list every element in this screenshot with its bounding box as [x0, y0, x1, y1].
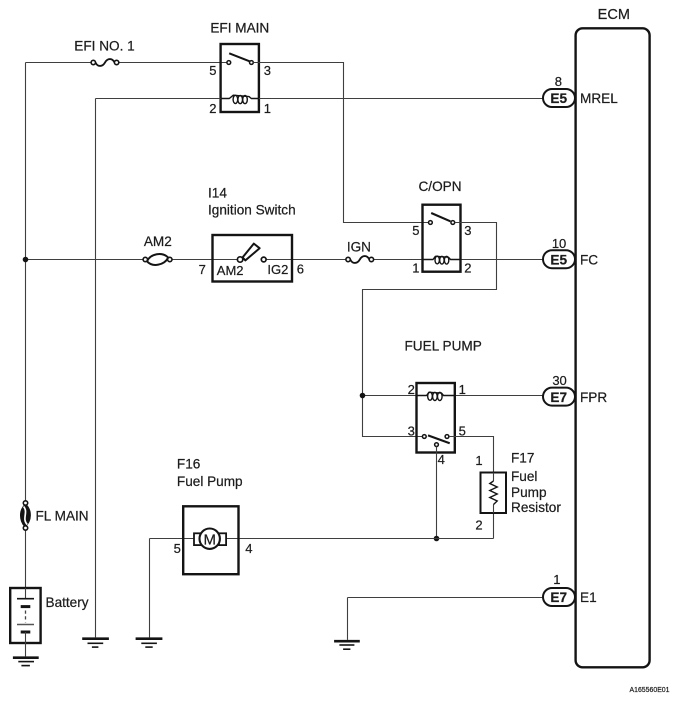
svg-text:IG2: IG2	[267, 262, 288, 277]
relay FUEL PUMP contact pin 4	[435, 443, 439, 447]
wire battery feed horizontal top (B+ to EFI NO.1 fuse to EFI MAIN pin 5)	[26, 62, 227, 64]
svg-text:5: 5	[412, 223, 419, 238]
wire E1 to ground	[348, 598, 544, 640]
svg-text:AM2: AM2	[217, 263, 244, 278]
svg-text:FC: FC	[580, 252, 598, 267]
svg-text:1: 1	[475, 453, 482, 468]
relay EFI MAIN contact pin 5	[227, 61, 231, 65]
svg-text:IGN: IGN	[347, 239, 371, 254]
svg-text:Resistor: Resistor	[511, 500, 561, 515]
connector E7 E1	[543, 572, 597, 606]
relay C/OPN coil	[423, 256, 461, 264]
svg-text:1: 1	[459, 382, 466, 397]
svg-text:E5: E5	[550, 91, 567, 106]
svg-text:ECM: ECM	[598, 7, 630, 23]
svg-text:E1: E1	[580, 590, 597, 605]
svg-text:2: 2	[408, 382, 415, 397]
svg-text:A165560E01: A165560E01	[630, 685, 670, 694]
wire left battery vertical	[25, 63, 27, 589]
relay FUEL PUMP contact pin 3	[422, 435, 426, 439]
relay EFI MAIN contact pin 3	[250, 61, 254, 65]
wire FUEL PUMP coil row to FPR	[363, 395, 544, 397]
svg-text:Battery: Battery	[46, 595, 89, 610]
svg-text:Fuel: Fuel	[511, 469, 537, 484]
connector E5 MREL	[543, 74, 618, 107]
wire FUEL PUMP pin5 to F17 resistor	[449, 437, 494, 539]
svg-text:F17: F17	[511, 451, 534, 466]
svg-text:EFI MAIN: EFI MAIN	[210, 21, 269, 36]
fusible link FL MAIN	[21, 501, 89, 530]
switch I14 contact IG2	[261, 257, 266, 262]
motor brush left	[194, 533, 203, 545]
wire AM2 row (battery to ignition switch to C/OPN coil to FC)	[26, 259, 544, 261]
wire fuel pump motor row	[150, 539, 494, 638]
svg-text:2: 2	[209, 101, 216, 116]
svg-text:1: 1	[264, 101, 271, 116]
resistor F17 fuel pump resistor	[475, 451, 561, 533]
node fuel pump branch junction	[360, 393, 366, 399]
relay EFI MAIN switch blade	[229, 53, 249, 61]
ECM box	[576, 7, 650, 667]
ground battery	[13, 658, 39, 666]
svg-text:FPR: FPR	[580, 390, 607, 405]
svg-text:8: 8	[555, 74, 562, 89]
ground fuel pump	[136, 639, 163, 647]
relay C/OPN	[412, 179, 471, 275]
svg-text:3: 3	[408, 424, 415, 439]
switch I14 contact AM2	[237, 257, 242, 262]
svg-text:4: 4	[438, 452, 445, 467]
svg-text:Pump: Pump	[511, 485, 547, 500]
svg-text:5: 5	[209, 63, 216, 78]
svg-text:3: 3	[264, 63, 271, 78]
svg-text:2: 2	[464, 260, 471, 275]
relay FUEL PUMP contact pin 5	[445, 435, 449, 439]
svg-text:C/OPN: C/OPN	[418, 179, 461, 194]
svg-text:4: 4	[245, 541, 252, 556]
svg-text:E7: E7	[550, 390, 567, 405]
svg-text:2: 2	[475, 518, 482, 533]
switch I14 ignition switch	[199, 185, 304, 281]
motor F16 fuel pump	[174, 457, 253, 575]
node pump return junction	[434, 536, 440, 542]
motor brush right	[219, 533, 226, 545]
relay FUEL PUMP coil	[417, 392, 455, 400]
svg-text:E7: E7	[550, 590, 567, 605]
wire EFI MAIN pin3 to C/OPN pin5	[253, 63, 428, 223]
wire EFI MAIN coil to MREL and left branch to ground	[96, 99, 544, 638]
battery	[10, 588, 89, 656]
svg-text:5: 5	[174, 541, 181, 556]
battery dashed link	[25, 611, 27, 623]
fuse IGN	[346, 239, 374, 263]
battery plate long bottom	[17, 624, 34, 626]
svg-text:1: 1	[412, 260, 419, 275]
svg-text:3: 3	[464, 223, 471, 238]
relay C/OPN contact pin 3	[451, 221, 455, 225]
svg-text:I14: I14	[208, 185, 227, 200]
relay EFI MAIN coil	[221, 95, 259, 104]
svg-text:Fuel Pump: Fuel Pump	[177, 474, 243, 489]
connector E7 FPR	[543, 373, 607, 405]
relay C/OPN contact pin 5	[429, 221, 433, 225]
svg-text:FUEL PUMP: FUEL PUMP	[405, 339, 482, 354]
svg-text:Ignition Switch: Ignition Switch	[208, 202, 296, 217]
svg-text:1: 1	[553, 572, 560, 587]
fuse EFI NO. 1	[74, 39, 134, 66]
motor circle	[200, 529, 220, 549]
svg-text:6: 6	[297, 262, 304, 277]
relay EFI MAIN	[209, 21, 271, 116]
node battery junction	[23, 257, 29, 263]
svg-text:AM2: AM2	[144, 234, 172, 249]
wire C/OPN pin3 to FUEL PUMP relay	[363, 223, 497, 437]
connector E5 FC	[543, 236, 598, 268]
battery plate short top	[21, 605, 31, 608]
battery plate long top	[17, 598, 34, 600]
svg-text:M: M	[203, 531, 216, 548]
svg-text:MREL: MREL	[580, 91, 618, 106]
ground ECM E1	[334, 641, 360, 649]
battery plate short bottom	[21, 631, 31, 634]
relay FUEL PUMP switch blade	[428, 435, 450, 443]
switch I14 lever	[243, 244, 260, 261]
fuse AM2 (medium current fuse)	[143, 234, 172, 265]
svg-text:10: 10	[552, 236, 566, 251]
svg-text:EFI NO. 1: EFI NO. 1	[74, 39, 134, 54]
svg-text:FL MAIN: FL MAIN	[36, 508, 89, 523]
ground relay branch	[82, 639, 109, 647]
svg-text:7: 7	[199, 262, 206, 277]
svg-text:E5: E5	[550, 252, 567, 267]
relay C/OPN switch blade	[431, 213, 450, 221]
relay FUEL PUMP	[405, 339, 482, 468]
wire FUEL PUMP pin4 down	[436, 447, 438, 539]
svg-text:30: 30	[552, 373, 566, 388]
svg-text:F16: F16	[177, 457, 200, 472]
